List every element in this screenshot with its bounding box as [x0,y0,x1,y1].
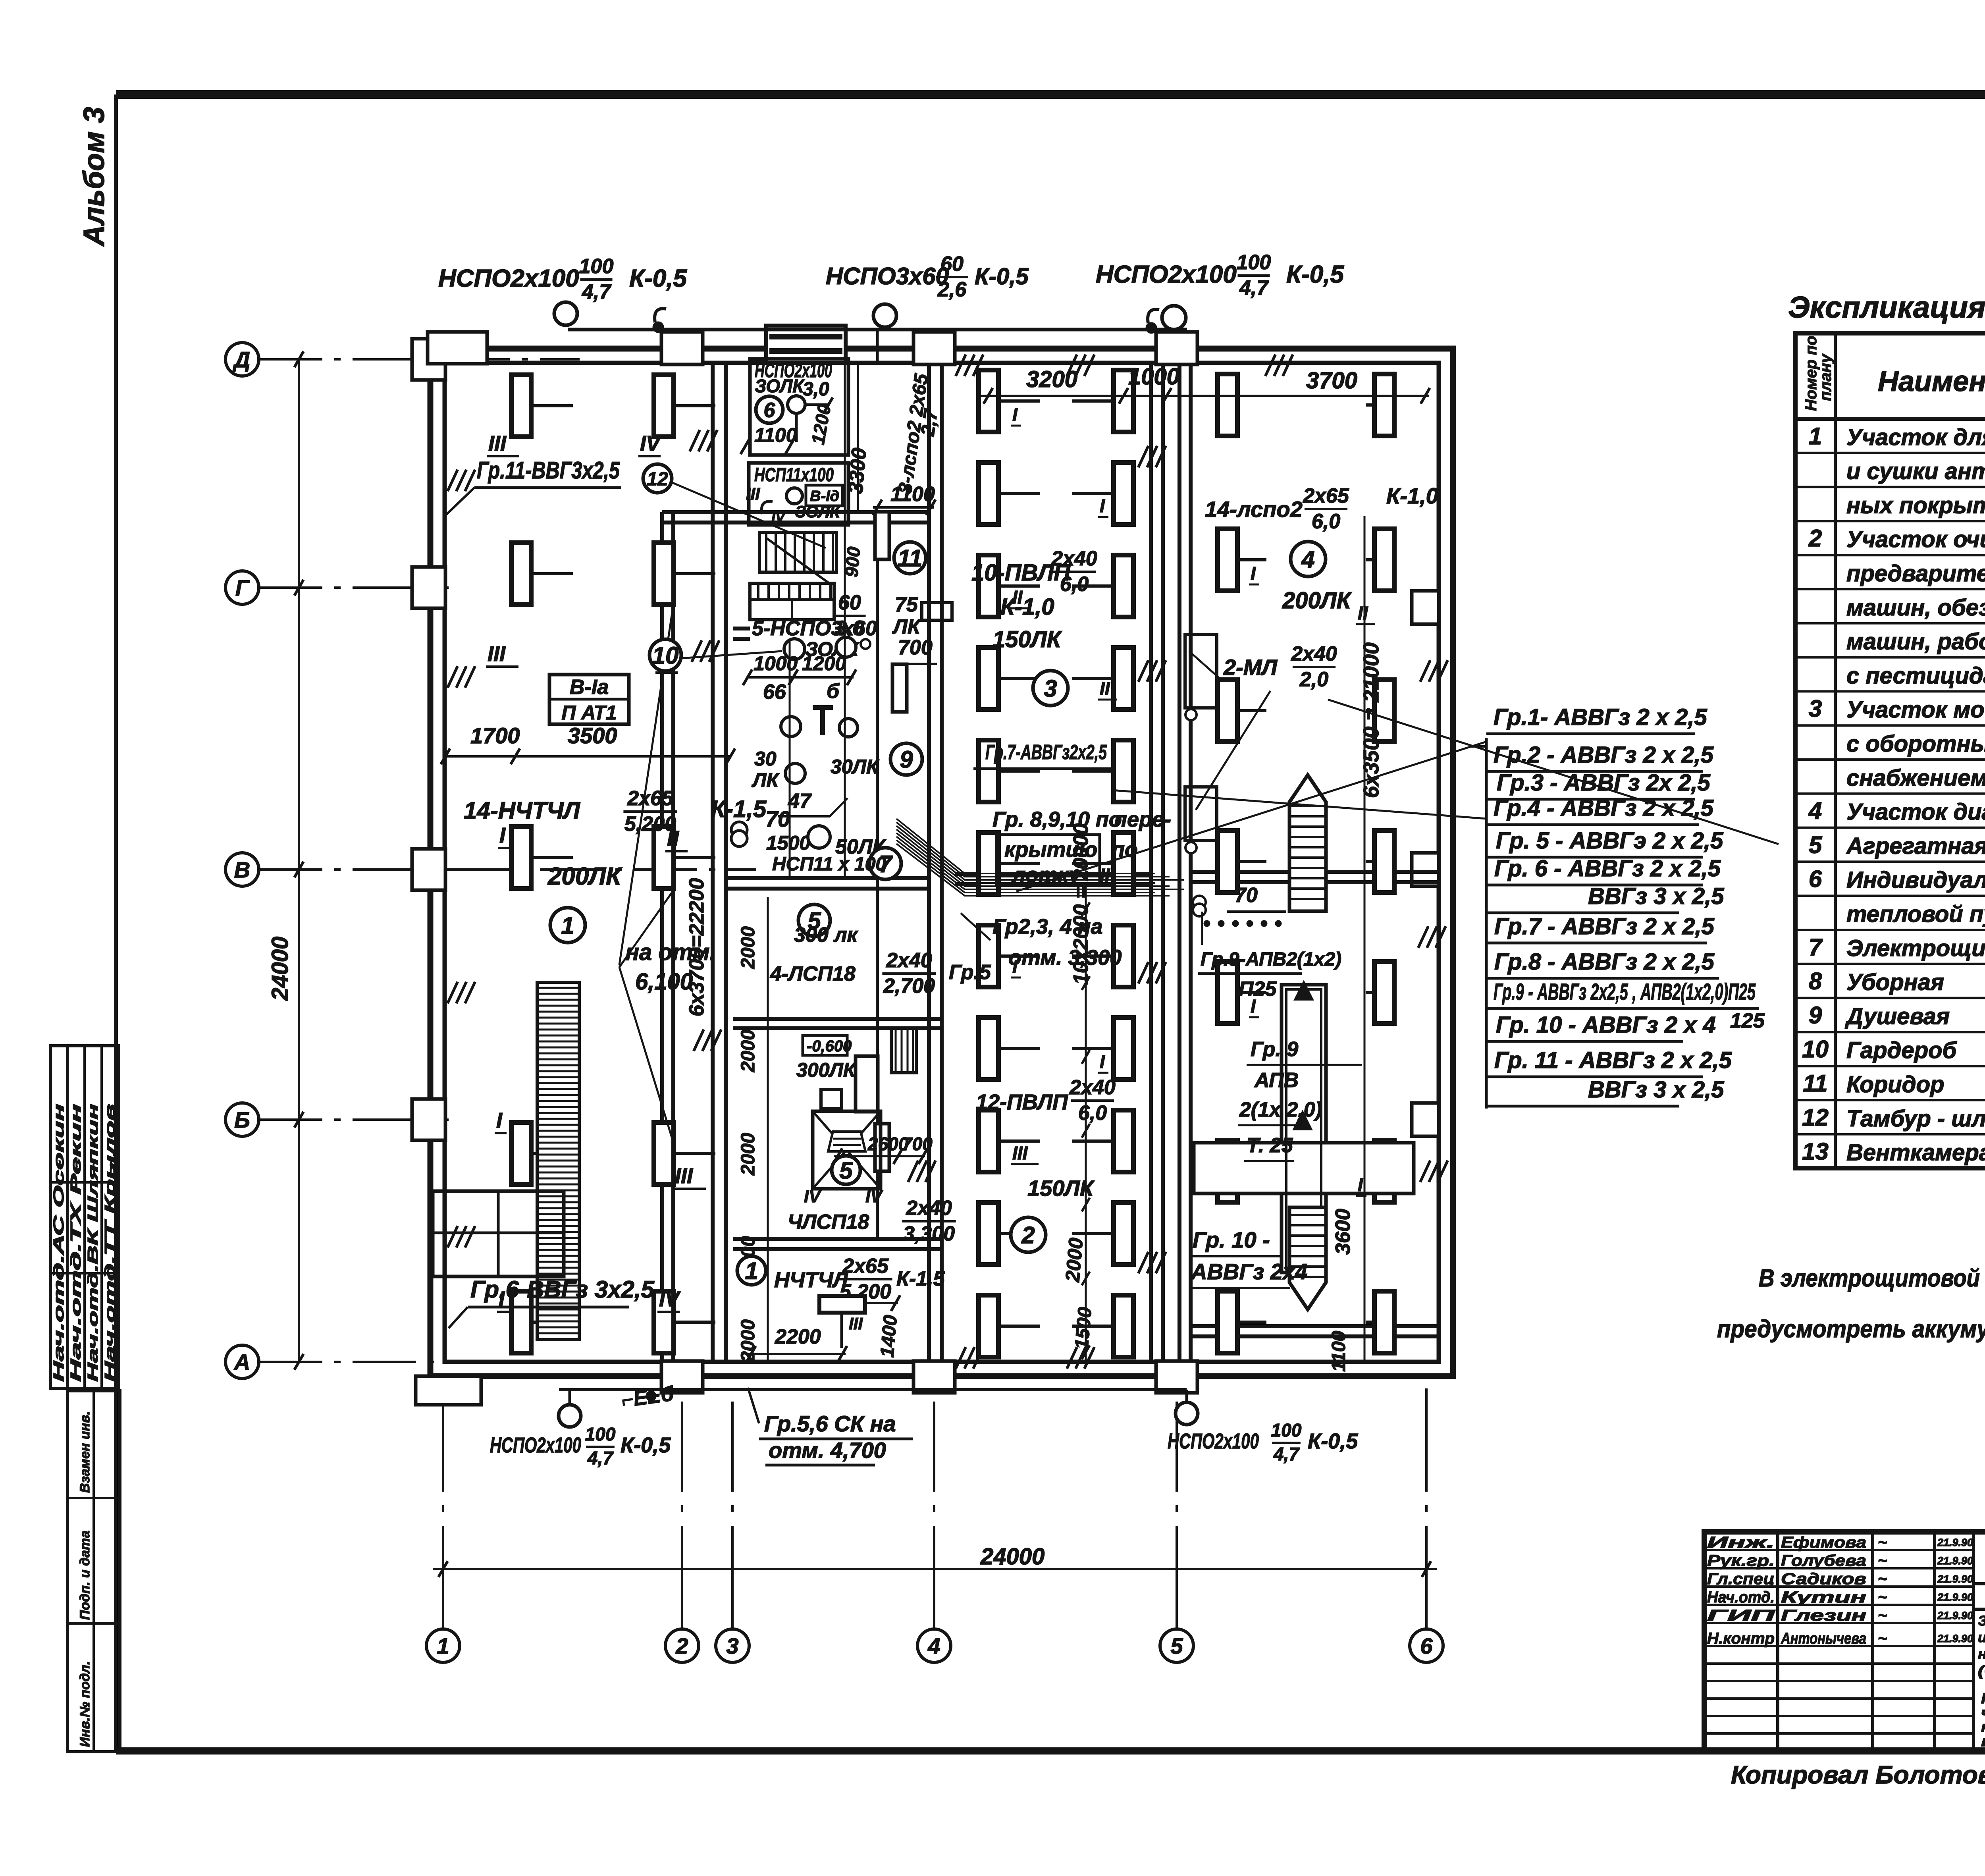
svg-text:2-МЛ: 2-МЛ [1223,655,1278,680]
axis line А [259,1361,520,1363]
svg-text:100: 100 [1237,251,1271,274]
bottom feeder wire [559,1388,1187,1391]
wall hatch [447,666,457,688]
left margin signature table upper [50,1046,119,1388]
svg-text:Гр.8 - АВВГз 2 х 2,5: Гр.8 - АВВГз 2 х 2,5 [1494,949,1715,975]
wall hatch [447,1226,457,1247]
svg-text:~: ~ [1878,1552,1887,1569]
leader lines to group list [1016,742,1486,891]
svg-text:21.9.90: 21.9.90 [1937,1573,1973,1585]
svg-text:2000: 2000 [738,926,759,969]
cross wall middle y1583 (short) [733,627,750,630]
svg-text:плану: плану [1817,353,1835,401]
axis 1 [426,1629,460,1662]
sheet frame left border [114,94,118,1752]
explication row 3 [1795,520,1985,522]
svg-text:Гр. 10 - АВВГз 2 х 4: Гр. 10 - АВВГз 2 х 4 [1496,1012,1716,1038]
room number 6 [756,396,783,423]
svg-text:Гр. 8,9,10 по: Гр. 8,9,10 по [992,808,1122,831]
svg-text:1: 1 [1809,423,1822,449]
svg-text:~: ~ [104,1160,118,1167]
room number 11 [894,542,926,574]
wall pilaster [412,1099,445,1140]
svg-text:I: I [1100,1051,1105,1072]
svg-text:Агрегатная: Агрегатная [1846,833,1985,859]
internal wall D [1178,363,1181,1362]
room number 12 [643,464,672,493]
wall hatch [1265,355,1275,376]
svg-text:2,7: 2,7 [917,407,942,438]
svg-text:~: ~ [1878,1534,1887,1551]
wall pilaster [1412,591,1439,624]
svg-text:Нач.отд.ВК Шляпкин: Нач.отд.ВК Шляпкин [85,1104,101,1382]
svg-text:2х40: 2х40 [1291,642,1337,665]
svg-text:Гр.9-АПВ2(1х2): Гр.9-АПВ2(1х2) [1201,949,1341,970]
svg-text:6,0: 6,0 [1078,1102,1107,1125]
svg-text:на отм.0.000 в осях 1-4: на отм.0.000 в осях 1-4 [1981,1733,1985,1749]
axis line 2 [681,1402,683,1629]
svg-text:3500: 3500 [568,723,617,748]
svg-text:К-0,5: К-0,5 [1286,261,1344,288]
svg-text:3: 3 [1044,675,1057,702]
grid block room 10 [750,583,834,620]
svg-text:Гр. 6 - АВВГз 2 х 2,5: Гр. 6 - АВВГз 2 х 2,5 [1494,856,1721,881]
svg-text:В: В [234,857,250,882]
svg-text:ческого оборудования и про-: ческого оборудования и про- [1981,1704,1985,1721]
svg-text:1400: 1400 [877,1314,901,1358]
svg-text:отм. 3,300: отм. 3,300 [1008,946,1122,970]
svg-text:НСПО3х60: НСПО3х60 [826,263,949,289]
room number 7 [869,848,901,879]
svg-text:предусмотреть аккумуляторный: предусмотреть аккумуляторный фонарь. [1717,1315,1985,1343]
explication row 7 [1795,656,1985,659]
svg-text:IV: IV [771,509,786,525]
sheet frame top border [116,90,1985,99]
svg-text:100: 100 [585,1424,616,1444]
group list bracket line [1485,738,1488,1109]
svg-text:III: III [746,484,760,503]
svg-text:70: 70 [1235,884,1258,907]
svg-text:с пестицидами: с пестицидами [1846,663,1985,688]
cross wall middle y2212 [726,876,929,880]
svg-text:НСП11 х 100: НСП11 х 100 [772,854,886,875]
svg-text:К-0,5: К-0,5 [1308,1429,1358,1453]
svg-text:ных покрытий: ных покрытий [1846,492,1985,518]
wall hatch [956,355,966,376]
svg-text:и защиты машин от коррозии рай: и защиты машин от коррозии район- [1978,1630,1985,1645]
svg-text:ного объединения „Агропромхими: ного объединения „Агропромхимия" [1978,1647,1985,1662]
wall pilaster [661,1361,703,1393]
svg-text:2х65: 2х65 [627,787,674,810]
svg-text:ЗОЛК: ЗОЛК [755,376,805,396]
svg-text:К-1,0: К-1,0 [1386,483,1438,508]
svg-text:10: 10 [1802,1036,1829,1062]
svg-text:66: 66 [763,681,786,704]
wall pilaster [913,332,955,364]
explication row 21 [1795,1133,1985,1136]
svg-text:Гр.5: Гр.5 [949,961,991,984]
svg-text:5: 5 [1809,831,1823,858]
room number 2 [1011,1217,1046,1252]
svg-text:3700: 3700 [1306,368,1357,393]
svg-text:машин, обезвреживания: машин, обезвреживания [1846,595,1985,621]
svg-text:30: 30 [754,748,777,770]
internal wall C [1149,363,1153,1362]
devices on wall D [1185,634,1217,708]
svg-text:II: II [1100,865,1110,885]
svg-text:70: 70 [765,806,790,831]
svg-text:I: I [1012,404,1018,425]
svg-text:П АТ1: П АТ1 [561,702,617,724]
T wall piece [813,708,833,735]
svg-text:Гр. 5 - АВВГэ 2 х 2,5: Гр. 5 - АВВГэ 2 х 2,5 [1496,828,1723,854]
svg-text:II: II [1012,587,1023,607]
wall pilaster [1412,1103,1439,1136]
equipment block room 1 [433,1191,564,1276]
svg-text:Гр.4 - АВВГз 2 х 2,5: Гр.4 - АВВГз 2 х 2,5 [1494,795,1714,821]
top dimension line [981,395,1429,397]
axis line Г [259,586,449,589]
svg-text:2: 2 [1808,525,1822,551]
svg-text:III: III [849,1314,863,1333]
svg-text:П25: П25 [1239,978,1277,1001]
room number 10 [649,639,681,671]
svg-text:Подп. и дата: Подп. и дата [77,1531,93,1620]
svg-text:8: 8 [1809,968,1822,995]
svg-text:14-НЧТЧЛ: 14-НЧТЧЛ [464,797,581,824]
svg-text:Гр.9 - АВВГз 2х2,5 , АПВ2(1х2,: Гр.9 - АВВГз 2х2,5 , АПВ2(1х2,0)П25 [1494,979,1756,1005]
svg-text:3200: 3200 [1026,366,1077,392]
wall hatch [1138,660,1148,682]
svg-text:6: 6 [1809,866,1822,892]
svg-text:~: ~ [1878,1589,1887,1606]
explication row 18 [1795,1031,1985,1033]
axis В [225,853,259,886]
svg-text:АВВГз 2х4: АВВГз 2х4 [1190,1259,1307,1284]
svg-text:12: 12 [647,469,668,490]
svg-text:I: I [499,823,506,847]
svg-text:12-ПВЛП: 12-ПВЛП [976,1090,1068,1114]
svg-text:21.9.90: 21.9.90 [1937,1633,1973,1645]
hatched conveyor strip room 1 [537,982,579,1340]
svg-text:А: А [233,1350,250,1375]
svg-text:5: 5 [1170,1633,1183,1658]
level box [803,1035,847,1055]
svg-text:I: I [1100,496,1105,516]
svg-text:ЛК: ЛК [752,769,780,791]
room number 1 [737,1256,766,1285]
lamp NSP top 1 [554,302,577,325]
bottom dimension line 24000 [433,1568,1437,1570]
top feeder wire [568,328,1187,332]
svg-text:30ЛК: 30ЛК [831,756,880,778]
NSP11 room box [749,463,848,525]
svg-text:НСПО2х100: НСПО2х100 [1096,261,1237,288]
svg-text:III: III [675,1164,693,1188]
axis 5 [1160,1629,1193,1662]
sheet frame bottom border [116,1747,1985,1755]
svg-text:300 лк: 300 лк [794,924,859,947]
svg-text:I: I [496,1109,503,1132]
axis line Б [259,1118,449,1121]
svg-text:Т. 25: Т. 25 [1247,1134,1293,1157]
svg-text:пере-: пере- [1114,808,1171,831]
horizontal fixture [819,1296,865,1313]
wall hatch [1138,962,1148,983]
dotted run [1204,920,1210,927]
svg-text:Участок для нанесения: Участок для нанесения [1846,424,1985,450]
svg-text:1: 1 [437,1633,449,1658]
svg-text:6х3700=22200: 6х3700=22200 [685,878,708,1016]
svg-text:Участок диагностики: Участок диагностики [1846,799,1985,825]
svg-text:снабжением: снабжением [1846,765,1985,791]
wall hatch [1420,1161,1430,1182]
room number 3 [1033,671,1068,706]
axis line 5 [1176,1402,1178,1629]
cross corridor vertical [1282,985,1326,1273]
svg-text:План расположения электри-: План расположения электри- [1981,1690,1985,1706]
svg-text:II: II [1358,603,1368,623]
svg-text:Голубева: Голубева [1781,1552,1866,1569]
svg-text:IV: IV [865,1187,883,1206]
bottom-left wall protrusion [416,1376,481,1405]
svg-text:300ЛК: 300ЛК [796,1059,857,1081]
route arrows [1293,980,1314,1001]
project number cell [1973,1582,1985,1585]
luminaires rooms 3/2 strip [979,370,998,432]
room number 1 [550,908,585,943]
internal wall A0 (vestibule) [660,512,664,1362]
room number 5 [832,1156,860,1184]
svg-text:1000: 1000 [754,652,798,675]
cross wall strip3 y2201 [955,872,1151,876]
svg-text:Участок очистки и: Участок очистки и [1846,526,1985,552]
svg-text:150ЛК: 150ЛК [1027,1176,1095,1201]
lamp NSP top 3 [1162,306,1186,330]
svg-text:6,0: 6,0 [1312,510,1340,533]
internal wall B [927,363,931,1362]
explication row 17 [1795,997,1985,999]
explication row 2 [1795,486,1985,488]
svg-text:Тамбур - шлюз: Тамбур - шлюз [1846,1106,1985,1132]
svg-text:24000: 24000 [980,1544,1045,1569]
svg-text:ЛК: ЛК [892,615,921,638]
building inner wall line [445,363,1439,1362]
title block frame [1704,1532,1985,1751]
axis line 3 [731,1402,734,1629]
svg-text:Гр.6-ВВГз 3х2,5: Гр.6-ВВГз 3х2,5 [470,1276,655,1303]
explication row 16 [1795,963,1985,965]
svg-text:150ЛК: 150ЛК [992,627,1062,652]
svg-text:IV: IV [659,1287,681,1311]
svg-text:3,300: 3,300 [903,1222,955,1246]
svg-text:75: 75 [895,593,918,616]
svg-text:2х40: 2х40 [906,1197,952,1220]
svg-text:2,6: 2,6 [937,278,967,301]
svg-text:Здание наружной мойки,диагност: Здание наружной мойки,диагностики [1978,1613,1985,1629]
small treads block [891,1028,916,1073]
svg-text:Уборная: Уборная [1846,970,1944,995]
svg-text:II: II [1100,678,1110,699]
explication row 10 [1795,758,1985,761]
svg-text:~: ~ [1878,1570,1887,1588]
svg-text:2х40: 2х40 [886,949,932,972]
svg-text:1500: 1500 [766,832,810,854]
svg-text:НСПО2х100: НСПО2х100 [490,1433,581,1457]
room 6 box [750,359,848,455]
svg-text:21.9.90: 21.9.90 [1937,1537,1973,1548]
svg-text:ГИП: ГИП [1707,1607,1776,1624]
svg-text:Альбом 3: Альбом 3 [77,107,110,247]
svg-text:Рук.гр.: Рук.гр. [1707,1552,1775,1569]
svg-text:~: ~ [53,1160,66,1167]
svg-text:Кутин: Кутин [1781,1589,1866,1606]
explication row 4 [1795,554,1985,556]
svg-text:тепловой пункт: тепловой пункт [1846,901,1985,927]
svg-text:4: 4 [927,1633,940,1658]
svg-text:~: ~ [1878,1607,1887,1624]
svg-text:4,7: 4,7 [587,1448,614,1468]
room number 9 [890,743,922,775]
svg-text:200ЛК: 200ЛК [547,863,622,890]
axis line 6 [1425,1378,1428,1629]
axis line 1 [442,1378,444,1629]
svg-text:4-ЛСП18: 4-ЛСП18 [770,962,856,985]
svg-text:21.9.90: 21.9.90 [1937,1610,1973,1621]
svg-text:I: I [1251,563,1256,584]
svg-text:1100: 1100 [1328,1330,1349,1372]
wall hatch [690,430,700,451]
svg-text:2200: 2200 [775,1325,821,1348]
svg-text:3600: 3600 [1332,1209,1355,1255]
axis Б [225,1103,259,1136]
svg-text:200ЛК: 200ЛК [1282,588,1352,613]
svg-text:14-лспо2: 14-лспо2 [1205,497,1303,522]
svg-text:24000: 24000 [267,937,293,1001]
svg-text:47: 47 [788,790,812,813]
svg-text:В-Iа: В-Iа [570,676,609,699]
svg-text:9: 9 [900,746,913,773]
wall pilaster [1156,1361,1197,1393]
svg-text:К-1,0: К-1,0 [1000,594,1054,620]
svg-text:3: 3 [1809,695,1822,722]
svg-text:I: I [1358,1174,1363,1195]
wall hatch [447,982,457,1003]
svg-text:4,7: 4,7 [582,281,611,304]
svg-text:Венткамера: Венткамера [1846,1140,1985,1166]
svg-text:2,700: 2,700 [883,975,935,998]
svg-text:Д: Д [233,347,250,372]
svg-text:Гр. 11 - АВВГз 2 х 2,5: Гр. 11 - АВВГз 2 х 2,5 [1494,1047,1732,1073]
svg-text:Индивидуальный: Индивидуальный [1846,867,1985,893]
svg-text:Нач.отд.ТТ Крылов: Нач.отд.ТТ Крылов [102,1104,118,1382]
svg-text:1700: 1700 [470,723,520,748]
svg-text:предварительной мойки: предварительной мойки [1846,561,1985,586]
svg-text:Гр. 10 -: Гр. 10 - [1193,1227,1270,1252]
entrance tambour bump [766,326,846,363]
svg-text:Гардероб: Гардероб [1846,1037,1957,1063]
explication row 12 [1795,827,1985,829]
svg-text:5: 5 [839,1157,853,1184]
svg-text:2х65: 2х65 [1303,484,1349,507]
explication row 9 [1795,724,1985,727]
wall pilaster [913,1361,955,1393]
cross corridor horizontal [1194,1143,1414,1193]
svg-text:Гр.7 - АВВГз 2 х 2,5: Гр.7 - АВВГз 2 х 2,5 [1494,914,1715,939]
axis 2 [665,1629,699,1662]
left margin stamp lower [67,1391,120,1752]
svg-text:2: 2 [675,1633,688,1658]
cross wall middle y1290 [662,510,929,514]
class box [549,675,629,724]
svg-text:7: 7 [1809,934,1823,960]
vertical dim 6x3500 [1364,516,1366,1362]
building outer wall [430,349,1453,1376]
svg-text:Гр.11-ВВГ3х2,5: Гр.11-ВВГ3х2,5 [477,457,620,484]
svg-text:3,0: 3,0 [803,379,829,400]
room number 5 [798,904,830,936]
wall hatch [447,470,457,491]
svg-text:НСПО2х100: НСПО2х100 [1168,1429,1259,1453]
wall pilaster [412,339,445,380]
upper stair with arrow [1289,775,1326,911]
svg-text:К-0,5: К-0,5 [975,264,1029,289]
svg-text:б: б [827,680,840,703]
junction dots [653,322,664,333]
svg-text:Б: Б [234,1107,250,1132]
svg-text:13: 13 [1802,1138,1829,1165]
svg-text:и сушки антикоррозион-: и сушки антикоррозион- [1846,459,1985,484]
svg-text:6: 6 [1420,1633,1433,1658]
svg-text:III: III [488,642,506,666]
svg-text:3: 3 [726,1633,738,1658]
cross wall right strip y3340 [1191,1324,1439,1328]
electro room 7 [731,822,747,838]
explication table frame [1795,333,1985,1168]
svg-text:60: 60 [838,591,861,614]
svg-text:Взамен инв.: Взамен инв. [77,1411,93,1493]
svg-text:Наименование.: Наименование. [1878,366,1985,397]
wall hatch [1067,355,1077,376]
svg-text:IV: IV [640,432,662,455]
svg-text:4: 4 [1808,798,1822,824]
svg-text:4,7: 4,7 [1273,1444,1300,1464]
svg-text:Нач.отд.АС Осокин: Нач.отд.АС Осокин [50,1104,67,1382]
svg-text:100: 100 [1271,1420,1302,1440]
svg-text:НСП11х100: НСП11х100 [754,465,834,486]
explication row 13 [1795,860,1985,863]
left vertical dimension line 24000 [298,359,300,1362]
svg-text:III: III [1012,1143,1028,1163]
svg-text:Гр.5,6 СК на: Гр.5,6 СК на [764,1411,896,1436]
svg-text:-0,600: -0,600 [807,1037,852,1055]
wall hatch [1420,660,1430,682]
svg-text:Гр. 9: Гр. 9 [1251,1038,1298,1061]
explication row 6 [1795,622,1985,625]
svg-text:К-1,5: К-1,5 [711,796,767,822]
explication row 20 [1795,1099,1985,1101]
internal wall A (corridor) [711,363,715,1362]
svg-text:Нач.отд.: Нач.отд. [1707,1589,1775,1606]
svg-text:Н.контр: Н.контр [1707,1630,1775,1647]
svg-text:2: 2 [1021,1222,1035,1249]
svg-text:Экспликация помещений: Экспликация помещений [1788,291,1985,324]
wall pilaster [1156,332,1197,364]
wall hatch [1418,926,1428,948]
svg-text:Ефимова: Ефимова [1781,1534,1866,1551]
wall hatch [694,1030,703,1051]
svg-text:21.9.90: 21.9.90 [1937,1555,1973,1567]
